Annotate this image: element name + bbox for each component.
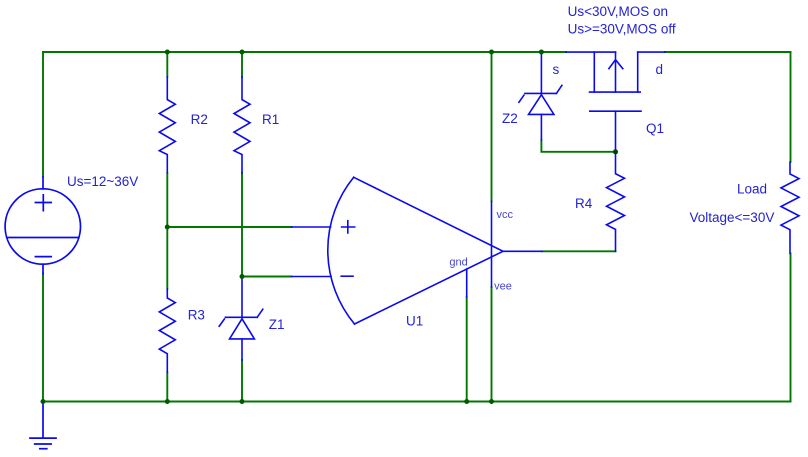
wire load column upper (790, 52, 792, 162)
svg-text:Q1: Q1 (646, 121, 664, 136)
svg-text:Us<30V,MOS on: Us<30V,MOS on (568, 4, 668, 19)
op-amp U1 (292, 177, 543, 324)
svg-text:d: d (656, 62, 664, 77)
junction gate node (613, 149, 618, 154)
wire R3 bottom (166, 372, 168, 401)
junction top R2 (165, 50, 170, 55)
wire R1 top lead (241, 52, 243, 77)
junction top R1 (240, 50, 245, 55)
wire load column lower (790, 253, 792, 401)
svg-text:R4: R4 (575, 196, 593, 211)
svg-text:vcc: vcc (497, 209, 514, 221)
junction bottom R3 (165, 399, 170, 404)
svg-text:U1: U1 (406, 314, 423, 329)
junction bottom left (41, 399, 46, 404)
svg-text:R3: R3 (188, 307, 205, 322)
resistor Load (781, 162, 799, 253)
wire gnd pin to ground rail (466, 297, 468, 402)
svg-text:Us>=30V,MOS off: Us>=30V,MOS off (568, 21, 676, 36)
junction bottom gnd (464, 399, 469, 404)
svg-text:gnd: gnd (449, 257, 467, 269)
wire left column upper (42, 52, 44, 177)
wire Z1 bottom (241, 360, 243, 402)
junction noninverting node (165, 225, 170, 230)
junction top vcc (489, 50, 494, 55)
svg-text:Z2: Z2 (502, 111, 518, 126)
svg-text:R2: R2 (191, 112, 208, 127)
wire inverting input (242, 276, 292, 278)
junction bottom Z1 (240, 399, 245, 404)
wire R1-Z1 middle (241, 173, 243, 277)
wire op-amp output to R4 (542, 250, 616, 252)
wire vee to ground rail (491, 287, 493, 402)
svg-text:Load: Load (737, 182, 767, 197)
resistor R4 (607, 152, 625, 252)
voltage source Us (5, 177, 80, 274)
zener diode Z2 (519, 52, 562, 140)
wire R2 top lead (166, 52, 168, 77)
resistor R3 (159, 289, 175, 373)
wire top rail left (43, 51, 566, 53)
svg-text:Voltage<=30V: Voltage<=30V (690, 210, 775, 225)
ground (30, 402, 56, 449)
wire left column lower (42, 274, 44, 402)
resistor R1 (234, 77, 250, 173)
wire R2-R3 middle (166, 173, 168, 289)
wire noninverting input (167, 226, 291, 228)
mosfet Q1 (566, 52, 665, 152)
svg-text:vee: vee (494, 281, 512, 293)
svg-text:Us=12~36V: Us=12~36V (67, 174, 138, 189)
junction bottom vee (489, 399, 494, 404)
zener diode Z1 (219, 277, 263, 361)
wire bottom rail (43, 401, 791, 403)
junction top Z2 (539, 50, 544, 55)
junction inverting node (240, 274, 245, 279)
wire top rail right (665, 51, 791, 53)
wire vcc (491, 52, 493, 201)
svg-text:R1: R1 (262, 112, 279, 127)
wire Z2 anode to gate node (541, 140, 615, 152)
svg-text:Z1: Z1 (269, 317, 285, 332)
svg-text:s: s (553, 62, 560, 77)
resistor R2 (159, 77, 175, 173)
